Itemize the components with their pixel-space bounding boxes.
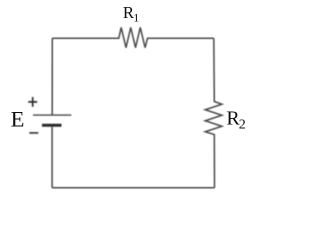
svg-text:2: 2 — [239, 117, 246, 132]
svg-text:1: 1 — [133, 10, 139, 24]
svg-text:E: E — [11, 107, 25, 132]
